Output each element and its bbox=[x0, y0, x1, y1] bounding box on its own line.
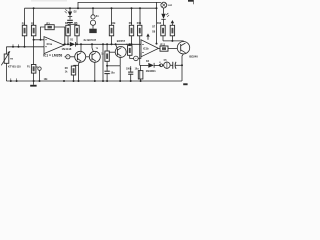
svg-text:R12: R12 bbox=[160, 43, 165, 46]
page tick bbox=[193, 0, 195, 4]
svg-text:P1: P1 bbox=[27, 67, 31, 69]
svg-text:D7: D7 bbox=[152, 27, 156, 29]
svg-text:10u: 10u bbox=[111, 71, 116, 74]
svg-text:La1: La1 bbox=[168, 5, 173, 7]
artifact top right bbox=[188, 0, 193, 2]
resistor R5 bbox=[76, 24, 78, 25]
resistor R10 bbox=[129, 44, 131, 45]
resistor R3 bbox=[45, 25, 54, 30]
capacitor C4 bbox=[172, 62, 174, 69]
capacitor C1 bbox=[106, 66, 108, 71]
wire node column bbox=[102, 44, 104, 81]
resistor R11 column bbox=[139, 8, 141, 25]
ground bbox=[33, 81, 35, 85]
transistor T4 bbox=[177, 42, 189, 54]
transistor T3 bbox=[115, 47, 126, 58]
svg-text:R9: R9 bbox=[129, 22, 133, 25]
wire hysteresis column bbox=[156, 2, 158, 43]
svg-text:2x BC547: 2x BC547 bbox=[84, 38, 97, 42]
svg-text:10k: 10k bbox=[111, 22, 116, 25]
svg-text:R13: R13 bbox=[157, 23, 162, 25]
svg-text:R9: R9 bbox=[10, 59, 14, 61]
svg-text:BC557: BC557 bbox=[117, 39, 126, 43]
wire op-amp output bbox=[63, 43, 70, 45]
resistor R12 bbox=[159, 47, 161, 49]
capacitor C3 electrolytic bbox=[138, 71, 143, 79]
svg-text:1k: 1k bbox=[101, 54, 104, 56]
resistor R7 bbox=[106, 44, 108, 51]
LED D2 bbox=[69, 8, 71, 11]
resistor R2 bbox=[33, 8, 35, 25]
svg-text:T2: T2 bbox=[96, 48, 99, 50]
preset P1 bbox=[31, 65, 36, 74]
diode D4 bbox=[140, 64, 149, 66]
wire comparator line bbox=[75, 43, 141, 45]
wire feedback loop bbox=[41, 27, 46, 40]
svg-text:BD240: BD240 bbox=[189, 55, 198, 59]
lamp La1 bbox=[161, 2, 167, 8]
resistor R13 bbox=[161, 25, 165, 36]
svg-text:100n: 100n bbox=[126, 68, 132, 70]
wire supply rail bbox=[25, 7, 157, 9]
small terminal bbox=[160, 64, 163, 67]
labels bbox=[8, 5, 198, 81]
resistor R4 bbox=[67, 24, 69, 25]
svg-text:10u: 10u bbox=[135, 68, 140, 70]
svg-text:R6: R6 bbox=[65, 68, 69, 70]
op-amp IC1a bbox=[44, 37, 64, 54]
svg-text:R5: R5 bbox=[74, 22, 78, 25]
svg-text:1N4148: 1N4148 bbox=[62, 47, 72, 51]
svg-text:D4: D4 bbox=[146, 60, 150, 63]
diode D1 bbox=[70, 42, 75, 47]
wire op-amp upper input bbox=[34, 39, 44, 41]
resistor R8 column bbox=[111, 8, 113, 25]
wire sensor input bbox=[6, 46, 44, 48]
transistor T1 bbox=[75, 51, 86, 62]
LED D3 bbox=[163, 8, 165, 14]
svg-text:KTY81-110: KTY81-110 bbox=[8, 65, 21, 68]
power arrow bbox=[146, 33, 149, 36]
transistor T2 bbox=[89, 51, 100, 62]
svg-text:1k: 1k bbox=[65, 72, 68, 74]
svg-text:D1: D1 bbox=[70, 39, 74, 41]
svg-text:R11: R11 bbox=[137, 22, 142, 25]
resistor R1 bbox=[24, 8, 26, 25]
junction dots bbox=[24, 7, 184, 82]
resistor R14 bbox=[171, 20, 174, 23]
sensor KTY81-110 bbox=[4, 54, 9, 63]
svg-text:D8: D8 bbox=[152, 32, 156, 34]
svg-text:IC1 = LM358: IC1 = LM358 bbox=[43, 54, 62, 58]
op-amp IC1b bbox=[141, 40, 159, 57]
wire top rail upper bbox=[78, 2, 161, 8]
svg-text:IC1a: IC1a bbox=[47, 42, 53, 46]
capacitor C2 bbox=[130, 66, 132, 72]
artifact bottom right dash bbox=[183, 83, 187, 85]
wire ground rail bbox=[6, 80, 182, 82]
svg-text:IC1b: IC1b bbox=[143, 47, 149, 51]
wire collector row bbox=[163, 40, 184, 42]
reference cell stack bbox=[92, 8, 94, 15]
svg-text:D2: D2 bbox=[74, 12, 78, 14]
node terminal bbox=[134, 56, 139, 61]
svg-text:1N4001: 1N4001 bbox=[146, 69, 157, 73]
svg-text:S1: S1 bbox=[96, 16, 100, 18]
buzzer bbox=[164, 62, 170, 68]
terminal pins bbox=[10, 46, 20, 82]
resistor R9 column bbox=[131, 8, 133, 25]
resistor R6 bbox=[74, 64, 79, 66]
